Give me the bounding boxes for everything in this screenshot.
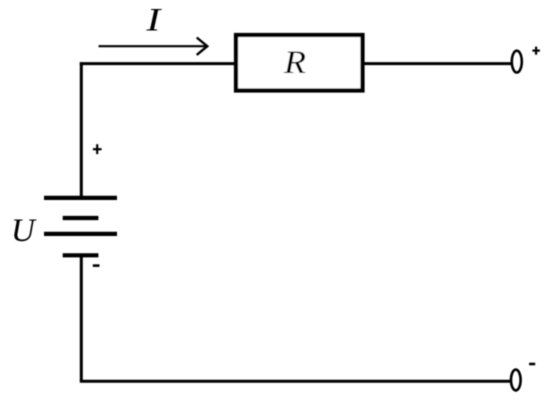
wire bottom-left vertical <box>80 254 83 382</box>
wire top horizontal right (resistor to + terminal) <box>361 62 512 65</box>
battery U plate 2 (short) <box>63 216 99 220</box>
terminal - polarity sign <box>529 363 535 366</box>
battery U plate 3 (long) <box>44 232 117 236</box>
terminal - (bottom right) <box>511 370 521 391</box>
svg-text:U: U <box>11 213 37 249</box>
terminal + (top right) <box>512 51 522 73</box>
wire bottom horizontal (battery to - terminal) <box>80 380 511 383</box>
wire top horizontal left (node to resistor) <box>80 62 238 65</box>
terminal + polarity sign <box>532 47 540 55</box>
battery polarity + sign <box>93 144 102 154</box>
svg-text:I: I <box>145 3 163 39</box>
svg-text:R: R <box>283 45 306 81</box>
wire top-left vertical <box>80 62 83 198</box>
battery U plate 1 (long, positive) <box>44 196 117 200</box>
battery polarity - sign <box>93 264 100 267</box>
current arrow I head <box>197 38 208 55</box>
battery U plate 4 (short, negative) <box>63 253 99 257</box>
resistor R body <box>236 35 363 91</box>
current arrow I shaft <box>99 45 207 47</box>
